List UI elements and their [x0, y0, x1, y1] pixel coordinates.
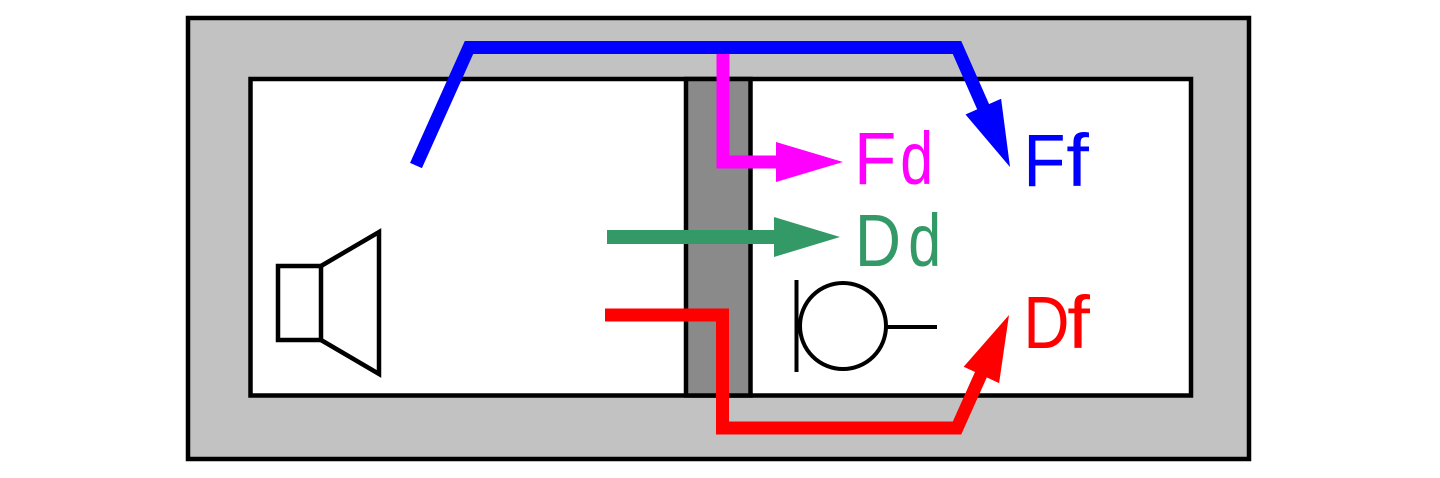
- svg-text:D: D: [855, 198, 901, 282]
- svg-text:f: f: [1066, 120, 1089, 202]
- svg-text:F: F: [1023, 120, 1065, 203]
- svg-text:D: D: [1023, 281, 1069, 365]
- svg-text:d: d: [900, 118, 933, 201]
- svg-text:f: f: [1067, 282, 1090, 364]
- svg-text:d: d: [908, 200, 941, 283]
- svg-text:F: F: [854, 118, 896, 201]
